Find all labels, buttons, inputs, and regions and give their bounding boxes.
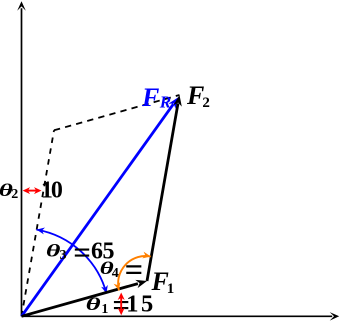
svg-text:1: 1 [101,302,108,317]
label theta_4 = [100,253,144,289]
svg-text:1: 1 [167,281,175,297]
svg-text:R: R [159,93,171,112]
angle indicator theta1 (red double arrow) [118,293,125,316]
svg-text:2: 2 [202,95,210,111]
svg-text:4: 4 [112,266,119,281]
angle indicator theta2 (red double arrow) [23,187,42,194]
label theta_1 = 15 [86,287,156,322]
svg-text:15: 15 [126,290,156,317]
vector F1 [22,280,148,316]
svg-text:3: 3 [60,248,67,263]
label F_R [141,83,171,112]
svg-text:10: 10 [41,178,63,204]
svg-text:=: = [73,235,91,270]
svg-text:θ: θ [46,242,61,261]
vector F2 [147,95,182,281]
angle arc theta4 (orange) [114,252,151,291]
x-axis [22,312,340,321]
svg-text:2: 2 [11,187,18,202]
angle arc theta3 (blue) [37,228,108,294]
wire dashed copy of F1 from corner to resultant tip [54,95,180,130]
y-axis [17,1,26,316]
label theta_2 [0,181,18,202]
label F_2 [186,81,210,111]
svg-text:θ: θ [86,295,101,314]
label theta_3 = 65 [46,235,115,270]
svg-text:=: = [125,253,144,289]
svg-text:F: F [141,83,159,112]
wire dashed copy of F2 from origin to parallelogram corner [22,130,55,316]
label F_1 [151,267,175,297]
vector FR resultant (blue) [22,97,179,316]
